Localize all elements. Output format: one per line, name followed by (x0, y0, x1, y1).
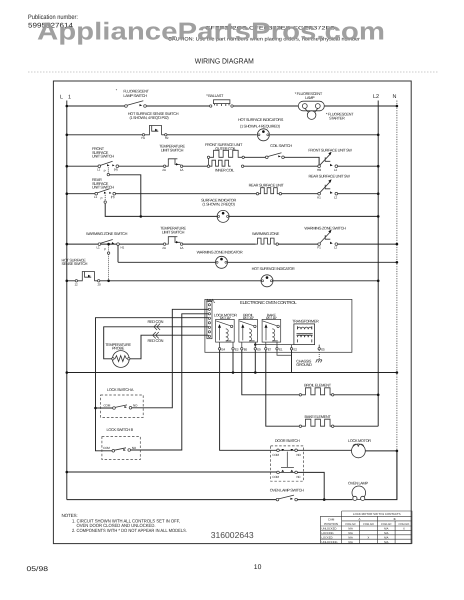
rear surface unit coil (256, 188, 281, 195)
wire N vertical rail lower (396, 451, 398, 500)
svg-text:B: B (394, 517, 396, 521)
junction L2 row3 (377, 165, 380, 168)
door switch lower contact (277, 470, 298, 474)
junction E9 row9 (254, 371, 257, 374)
svg-text:HOT SURFACE INDICATOR: HOT SURFACE INDICATOR (252, 266, 295, 271)
svg-text:N/A: N/A (348, 532, 353, 535)
rear surface unit switch (95, 189, 116, 204)
lock switch A (113, 405, 132, 409)
svg-text:N/A: N/A (348, 537, 353, 540)
svg-text:(1 SHOWN, 4 REQUIRED): (1 SHOWN, 4 REQUIRED) (240, 123, 281, 128)
svg-text:POSITION: POSITION (324, 522, 338, 526)
wire E6 to broil element (242, 350, 299, 395)
svg-text:H1: H1 (121, 246, 125, 250)
lock motor relay (216, 319, 235, 342)
svg-text:X: X (403, 528, 405, 531)
wire E3 down to bus (232, 350, 234, 373)
svg-text:DOOR SWITCH: DOOR SWITCH (275, 438, 300, 443)
svg-text:UNLOCKING: UNLOCKING (322, 541, 338, 544)
junction L1 row1 (66, 105, 69, 108)
junction L1 row2 (66, 134, 69, 137)
junction N row1 (396, 105, 399, 108)
svg-text:NO: NO (297, 453, 302, 457)
svg-text:P: P (101, 197, 103, 201)
svg-text:REAR SURFACE UNIT: REAR SURFACE UNIT (249, 182, 285, 187)
lock motor (352, 444, 366, 458)
junction L2 broil (377, 394, 380, 397)
svg-text:COM-NO: COM-NO (363, 523, 374, 526)
connector pins (208, 304, 210, 338)
svg-text:RELAY: RELAY (266, 316, 278, 321)
wire bus row7 to N (118, 261, 397, 263)
wire L2 vertical rail (377, 101, 379, 427)
fluorescent starter (305, 108, 318, 119)
svg-text:LOCK SWITCH A: LOCK SWITCH A (107, 387, 134, 392)
svg-text:N/A: N/A (384, 528, 389, 531)
lock motor table frame (321, 511, 413, 544)
svg-text:COM-NC: COM-NC (381, 523, 392, 526)
wire bus row8 L1 to L2 (67, 280, 378, 282)
svg-text:A: A (359, 517, 361, 521)
connector symbol wire D (154, 324, 160, 330)
warming zone switch (98, 240, 119, 246)
wire warming pilot to row8 (108, 254, 110, 280)
svg-text:AppliancePartsPros.com: AppliancePartsPros.com (37, 19, 385, 46)
svg-text:N/A: N/A (348, 541, 353, 544)
junction warming switch pilot (107, 243, 110, 246)
svg-text:X: X (368, 537, 370, 540)
wire bake element to L2 (334, 425, 378, 427)
svg-text:WARMING ZONE INDICATOR: WARMING ZONE INDICATOR (197, 250, 243, 255)
warming switch pilot terminal (108, 245, 110, 251)
svg-text:*: * (214, 301, 216, 306)
wire N vertical rail dashed upper (396, 101, 398, 451)
wire bus row6 L1 to N (67, 243, 397, 245)
svg-text:RED CON: RED CON (148, 319, 164, 324)
junction N lock motor (396, 450, 399, 453)
wire E2 down to bus (291, 350, 293, 373)
svg-text:UNIT SWITCH: UNIT SWITCH (92, 154, 114, 159)
electronic oven control board outline (205, 299, 352, 352)
coil switch (266, 153, 285, 159)
svg-text:WIRING DIAGRAM: WIRING DIAGRAM (195, 57, 254, 66)
svg-text:L2: L2 (334, 246, 338, 250)
svg-text:REAR SURFACE UNIT SW: REAR SURFACE UNIT SW (308, 173, 350, 178)
door switch upper contact (277, 449, 298, 452)
bake relay (262, 319, 281, 342)
junction E3 row9 (232, 371, 235, 374)
svg-text:(H): (H) (111, 195, 115, 199)
wire B connector to lock switch B NO (131, 314, 209, 450)
svg-text:LOCK MOTOR SW TO1 CONTACTS: LOCK MOTOR SW TO1 CONTACTS (353, 512, 401, 516)
svg-text:10: 10 (254, 564, 262, 571)
svg-text:TRANSFORMER: TRANSFORMER (292, 319, 319, 324)
transformer secondary terminals E2 E5 (292, 345, 320, 348)
svg-text:WARMING ZONE SWITCH: WARMING ZONE SWITCH (304, 226, 346, 231)
svg-text:PROBE: PROBE (112, 346, 125, 351)
svg-text:COM: COM (272, 475, 279, 479)
connector symbol wire E (153, 332, 159, 338)
wire oven lamp to N (365, 451, 397, 500)
svg-text:316002643: 316002643 (211, 530, 254, 540)
svg-text:(1 SHOWN, 4 REQ'D P02): (1 SHOWN, 4 REQ'D P02) (130, 115, 170, 120)
svg-text:LOCK SWITCH B: LOCK SWITCH B (107, 427, 134, 432)
wire L1 vertical rail (66, 101, 68, 500)
svg-text:E5: E5 (321, 347, 325, 351)
svg-text:20: 20 (97, 283, 101, 287)
wire E1 to E2 link (277, 350, 292, 355)
wire relay to transformer primary (255, 344, 294, 346)
junction L1 row4 (66, 192, 69, 195)
svg-text:LAMP: LAMP (305, 95, 315, 100)
svg-text:UNIT SWITCH: UNIT SWITCH (92, 185, 114, 190)
svg-text:12: 12 (74, 283, 78, 287)
fluorescent lamp switch (125, 101, 147, 108)
svg-text:RELAY: RELAY (243, 316, 255, 321)
broil element (299, 388, 334, 396)
wire L1 to oven lamp switch (67, 499, 276, 501)
junction row8 warming pilot tap (107, 280, 110, 283)
svg-text:LOCKED: LOCKED (322, 537, 333, 540)
svg-text:ELECTRONIC OVEN CONTROL: ELECTRONIC OVEN CONTROL (240, 300, 297, 305)
svg-text:RED CON: RED CON (148, 338, 164, 343)
junction L2 row2 (377, 134, 380, 137)
svg-text:2A: 2A (162, 246, 167, 250)
chassis ground (316, 360, 322, 363)
junction L2 row8 (377, 280, 380, 283)
svg-text:N/A: N/A (348, 528, 353, 531)
junction row5 front P (140, 215, 143, 218)
junction L2 row5 (377, 215, 380, 218)
wire E9 down to bus (254, 350, 256, 373)
svg-text:COM: COM (103, 446, 110, 450)
svg-text:OVEN LAMP SWITCH: OVEN LAMP SWITCH (270, 487, 304, 492)
junction N row9 (396, 371, 399, 374)
svg-text:N: N (393, 94, 397, 100)
svg-text:H1: H1 (141, 136, 145, 140)
lock switch A dashed box (101, 395, 144, 417)
svg-text:SENSE SWITCH: SENSE SWITCH (62, 261, 88, 266)
wire bus row5 to L2 (141, 215, 378, 217)
svg-text:05/98: 05/98 (27, 566, 49, 573)
svg-text:L2: L2 (373, 94, 379, 100)
wire coil switch to front unit sw upper (284, 157, 319, 165)
svg-text:NO: NO (133, 403, 138, 407)
wire broil element to L2 (334, 394, 378, 396)
svg-text:N/A: N/A (384, 532, 389, 535)
svg-text:WARMING ZONE: WARMING ZONE (252, 231, 280, 236)
svg-text:L2: L2 (334, 168, 338, 172)
oven lamp switch (276, 495, 297, 501)
wire bus row3 L1 to L2 (67, 165, 318, 167)
temperature limit switch row3 (163, 159, 182, 168)
svg-text:GROUND: GROUND (296, 362, 312, 367)
svg-text:L1: L1 (97, 246, 101, 250)
svg-text:H2: H2 (165, 136, 169, 140)
svg-text:LOCK MOTOR: LOCK MOTOR (348, 438, 371, 443)
svg-text:COM-NO: COM-NO (398, 523, 409, 526)
svg-text:E4: E4 (222, 347, 226, 351)
svg-text:BAKE ELEMENT: BAKE ELEMENT (305, 414, 332, 419)
svg-text:BROIL ELEMENT: BROIL ELEMENT (304, 383, 332, 388)
svg-text:OVEN LAMP: OVEN LAMP (348, 481, 368, 486)
svg-text:(H): (H) (114, 168, 118, 172)
wire E5 to chassis ground (318, 350, 320, 360)
door switch dashed box (271, 446, 304, 481)
surface indicator (217, 210, 229, 222)
wire door NO to lock motor (297, 449, 351, 451)
transformer (294, 324, 315, 345)
svg-text:INNER COIL: INNER COIL (215, 168, 235, 173)
svg-text:E1: E1 (279, 347, 283, 351)
junction broil relay to transformer (254, 343, 256, 345)
front unit outer coil (210, 150, 242, 157)
svg-text:RELAY: RELAY (220, 316, 232, 321)
wire D connector to probe left (104, 327, 209, 359)
svg-text:HB: HB (317, 168, 321, 172)
warming zone indicator (216, 256, 228, 268)
wire outer coil to coil switch (244, 156, 265, 158)
svg-text:(1 SHOWN, 2 REQ'D): (1 SHOWN, 2 REQ'D) (202, 201, 235, 206)
svg-text:E7: E7 (268, 347, 272, 351)
wire rear unit sw to L2 (338, 193, 379, 195)
svg-text:2A: 2A (162, 168, 167, 172)
coil junction node (207, 156, 209, 167)
svg-text:L 1: L 1 (60, 95, 71, 101)
lock switch B dashed box (102, 437, 140, 460)
junction lock switch A com (94, 407, 97, 410)
svg-text:LOCKING: LOCKING (322, 532, 334, 535)
board edge connector (206, 300, 213, 339)
svg-text:STARTER: STARTER (329, 116, 345, 121)
junction L1 row8 (66, 280, 69, 283)
rear surface unit sw (318, 179, 338, 195)
warming zone coil (256, 238, 279, 245)
oven lamp (352, 486, 366, 501)
hot surface sense switch row8 (75, 272, 100, 283)
svg-text:CAM: CAM (328, 518, 335, 522)
broil relay (239, 319, 258, 342)
diagram border frame (53, 81, 411, 544)
svg-text:E9: E9 (257, 347, 261, 351)
wire C connector to lock switch feed (96, 318, 209, 451)
svg-text:HOT SURFACE INDICATORS: HOT SURFACE INDICATORS (238, 117, 284, 122)
wire bus row4 L1 to L2 (67, 193, 318, 195)
svg-text:COM: COM (104, 403, 111, 407)
svg-text:COM-NC: COM-NC (345, 523, 356, 526)
wire front P to row5 (110, 175, 141, 215)
warming zone unit sw (318, 230, 338, 246)
svg-text:1A: 1A (180, 168, 185, 172)
lock switch B (112, 448, 131, 452)
front surface unit switch (98, 161, 119, 176)
svg-text:E6: E6 (244, 347, 248, 351)
wire rear P to row5 (105, 204, 141, 217)
junction lamp row (323, 498, 326, 501)
front unit inner coil (210, 160, 231, 166)
svg-text:E3: E3 (235, 347, 239, 351)
ballast coil (210, 100, 234, 107)
wire main bus row9 L1 to N (67, 372, 397, 374)
relay terminals E4 E3 E6 E9 E7 E1 (218, 342, 278, 350)
svg-text:COIL SWITCH: COIL SWITCH (270, 143, 292, 148)
junction L1 row9 (66, 371, 69, 374)
hot surface sense switch row2 (142, 126, 167, 137)
svg-text:L1: L1 (97, 168, 101, 172)
svg-text:P: P (104, 247, 106, 251)
svg-text:N/A: N/A (384, 541, 389, 544)
svg-text:UNLOCKED: UNLOCKED (322, 528, 337, 531)
hot surface indicator row8 (261, 275, 273, 287)
wire bus row2 L1 to L2 (67, 134, 378, 136)
wire bus row1 L1 to N (67, 105, 397, 107)
junction N row7 (396, 261, 399, 264)
svg-text:P1: P1 (317, 246, 321, 250)
bake element (299, 419, 334, 427)
svg-text:LIMIT SWITCH: LIMIT SWITCH (161, 147, 184, 152)
wire front unit sw to L2 (338, 165, 379, 167)
svg-text:NC: NC (297, 475, 302, 479)
header separator dotted line (28, 71, 438, 73)
wire E4 down to door switch (220, 350, 277, 450)
junction L2 row4 (377, 192, 380, 195)
fluorescent lamp (298, 101, 324, 111)
junction N row6 (396, 243, 399, 246)
temperature limit switch row6 (163, 237, 182, 246)
door switch link bar (281, 452, 294, 468)
svg-text:COM: COM (272, 453, 279, 457)
svg-text:P: P (104, 169, 106, 173)
wire E7 to bake element (266, 350, 299, 426)
front surface unit sw (318, 152, 338, 168)
wire L1 to door switch lower com (67, 471, 277, 473)
svg-text:NO: NO (132, 446, 137, 450)
svg-text:LIMIT SWITCH: LIMIT SWITCH (162, 229, 185, 234)
junction L1 row6 (66, 243, 69, 246)
svg-text:K1: K1 (317, 195, 321, 199)
wire to lock switch A com (96, 407, 113, 409)
wire oven lamp switch to lamp (297, 499, 352, 501)
junction L1 door (66, 471, 69, 474)
svg-text:L1: L1 (94, 195, 98, 199)
svg-text:* BALLAST: * BALLAST (206, 93, 224, 98)
junction L1 row3 (66, 165, 69, 168)
hot surface indicator row2 (257, 129, 269, 141)
svg-text:L2: L2 (334, 195, 338, 199)
svg-text:FRONT SURFACE UNIT SW: FRONT SURFACE UNIT SW (308, 147, 352, 152)
svg-text:2. COMPONENTS WITH * DO NOT AP: 2. COMPONENTS WITH * DO NOT APPEAR IN AL… (72, 528, 187, 533)
svg-text:N/A: N/A (384, 537, 389, 540)
svg-text:E2: E2 (294, 347, 298, 351)
svg-text:LAMP SWITCH: LAMP SWITCH (123, 93, 147, 98)
wire A connector to lock switch A NO (132, 309, 208, 408)
wire warming switch H terminal to row7 (117, 245, 119, 262)
svg-text:*: * (116, 89, 118, 93)
temperature probe (112, 351, 130, 368)
wire door NC to lamp row (297, 472, 324, 499)
svg-text:WARMING ZONE SWITCH: WARMING ZONE SWITCH (86, 231, 128, 236)
wire lock motor to N (365, 450, 397, 452)
wire E connector to probe right (129, 335, 208, 359)
svg-text:1A: 1A (180, 246, 185, 250)
outer coil terminal (242, 156, 244, 158)
svg-text:NOTES:: NOTES: (62, 513, 78, 518)
inner coil terminal (241, 165, 243, 167)
